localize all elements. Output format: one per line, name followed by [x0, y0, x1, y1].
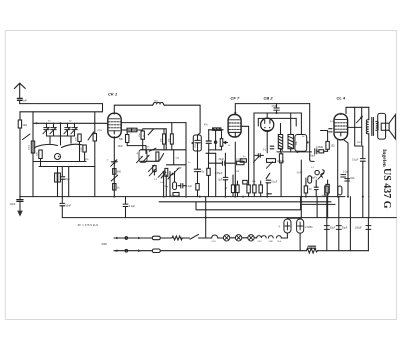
wire vert: [349, 197, 351, 251]
svg-text:1nF: 1nF: [160, 182, 164, 184]
svg-text:5000: 5000: [322, 195, 328, 197]
capacitor: [60, 177, 65, 197]
osc coil vertical: [141, 130, 144, 150]
svg-text:5n: 5n: [202, 170, 205, 173]
IF1 transformer: [206, 128, 227, 153]
wire plate feed: [127, 146, 146, 154]
svg-text:60W: 60W: [102, 242, 108, 246]
small box: [243, 180, 248, 184]
svg-text:0.1µF: 0.1µF: [129, 205, 136, 208]
coil: [156, 152, 159, 161]
wire CF7 plate top: [235, 104, 309, 113]
tube top caps: [113, 112, 342, 115]
svg-text:0.1: 0.1: [154, 179, 158, 181]
svg-text:1kΩ: 1kΩ: [23, 124, 28, 127]
osc coil A: [163, 129, 166, 150]
capacitor riser x125.5: [123, 197, 128, 218]
trimmer arrows: [136, 153, 149, 163]
svg-text:CK1: CK1: [212, 241, 217, 243]
svg-text:350: 350: [357, 142, 361, 144]
capacitor: [178, 184, 186, 189]
wire CL4 plate to transformer: [346, 107, 369, 113]
detector wire y163.2 with series cap: [209, 161, 235, 165]
resistor c: [247, 181, 250, 197]
wire: [355, 145, 363, 147]
wire antenna bus: [20, 104, 103, 112]
svg-text:50µµ: 50µµ: [170, 195, 176, 197]
misc labels: [85, 121, 361, 197]
wire drops to ground bus: [33, 142, 95, 197]
svg-text:8nF: 8nF: [351, 177, 356, 180]
svg-text:CL 4: CL 4: [337, 96, 346, 101]
capacitor antenna series: [17, 98, 22, 103]
svg-text:25: 25: [147, 147, 150, 149]
coil core circle: [55, 154, 61, 160]
svg-text:5n: 5n: [243, 156, 246, 158]
svg-text:10nF: 10nF: [10, 202, 16, 206]
wire grid bus y123.3: [33, 122, 108, 124]
svg-text:0.1µF: 0.1µF: [343, 172, 350, 174]
ground with capacitor: [17, 197, 23, 217]
detector area: wire y153.3: [206, 152, 216, 154]
wire tuner bottom bus 1: [33, 161, 86, 163]
junction dots on buses: [113, 196, 363, 219]
svg-text:1nF: 1nF: [178, 168, 182, 170]
svg-text:20µF: 20µF: [219, 158, 225, 161]
switch: [160, 154, 164, 161]
capacitor 5nF: [194, 169, 200, 183]
tube CK1: [108, 113, 121, 137]
tube CF7: [228, 115, 249, 182]
svg-text:50nF: 50nF: [66, 205, 72, 208]
svg-text:CK 1: CK 1: [108, 92, 118, 97]
svg-text:900: 900: [76, 137, 78, 141]
lamp 1: [223, 235, 229, 241]
volume pot: [266, 159, 275, 169]
capacitor 0.1uF: [360, 146, 365, 197]
coil L3: [78, 134, 81, 142]
wire osc bus y161.3: [141, 160, 160, 162]
AF cluster wires: [164, 172, 175, 197]
lamp 2: [235, 235, 241, 241]
wire: [160, 237, 172, 239]
coil L4: [83, 145, 86, 152]
wire AF coupling: [310, 159, 315, 161]
fuse row2: [152, 249, 160, 253]
node: [307, 141, 309, 143]
fuse row1: [152, 236, 160, 240]
trimmer osc row2 a: [149, 169, 155, 176]
svg-text:1n: 1n: [188, 162, 191, 164]
trimmer C3: [64, 123, 70, 136]
svg-text:50k: 50k: [119, 138, 124, 141]
svg-text:30k: 30k: [296, 141, 298, 145]
filter cap 50uF b: [336, 197, 341, 251]
svg-text:U 1854: U 1854: [305, 226, 313, 229]
wire CK1 screen row y122.6: [121, 122, 186, 124]
wire bus y201.8: [159, 201, 331, 203]
jack circle: [315, 170, 319, 174]
wire tuner top bus: [20, 111, 103, 113]
capacitor: [267, 193, 272, 195]
svg-text:1513: 1513: [97, 130, 103, 132]
resistor: [304, 178, 307, 197]
heater CK1 bump: [212, 235, 218, 238]
electrolytic pill: [308, 176, 312, 183]
filter cap 50uF a: [324, 197, 329, 251]
svg-text:CB 2: CB 2: [264, 96, 274, 101]
dropper resistor power: [306, 246, 317, 253]
rounded shield box: [295, 135, 307, 152]
resistor 0.1M horizontal: [237, 161, 244, 164]
switch osc: [148, 129, 153, 135]
capacitor 50nF: [60, 203, 65, 217]
wire: [199, 237, 212, 239]
coil L5: [93, 112, 96, 166]
wire tuner bottom bus 2: [39, 166, 95, 168]
coil L2: [39, 150, 42, 159]
svg-text:CF 7: CF 7: [231, 96, 240, 101]
svg-text:CB2: CB2: [269, 241, 274, 243]
switch ticks: [161, 172, 172, 179]
wire tone branch: [348, 107, 362, 146]
coil: [165, 168, 168, 176]
AF choke curl: [321, 170, 324, 177]
tube CB2: [261, 118, 274, 131]
trimmer on node: [356, 107, 362, 122]
gang bracket: [139, 150, 147, 163]
svg-text:2k: 2k: [228, 145, 231, 147]
mains row 1: [114, 237, 152, 240]
wire: [197, 190, 199, 197]
svg-text:150: 150: [331, 145, 336, 148]
resistor d: [253, 185, 256, 197]
svg-text:1k: 1k: [117, 187, 120, 190]
capacitor: [314, 180, 318, 197]
wire pills top: [287, 218, 300, 219]
svg-text:4µF+: 4µF+: [312, 177, 318, 180]
svg-text:CL4: CL4: [277, 241, 282, 243]
trimmer: [148, 165, 154, 172]
output transformer: [366, 107, 378, 196]
wire: [242, 237, 248, 239]
svg-text:6k: 6k: [302, 136, 305, 138]
svg-text:0.1: 0.1: [263, 150, 267, 152]
svg-text:CF7: CF7: [258, 241, 263, 243]
capacitor osc padder in box: [191, 105, 201, 151]
resistor det: [240, 159, 246, 162]
resistor CL4 grid: [326, 131, 329, 152]
wire: [181, 237, 190, 239]
svg-text:50p: 50p: [176, 158, 180, 160]
svg-text:50µF: 50µF: [342, 227, 348, 230]
wire left riser to bus: [61, 197, 63, 203]
heater CF7 bumps: [257, 236, 267, 238]
svg-text:0.1µF: 0.1µF: [352, 159, 359, 162]
wire CL4 screen: [344, 140, 348, 197]
capacitor det2: [266, 180, 271, 196]
wire CB2 top: [266, 113, 268, 118]
svg-text:4·: 4·: [137, 153, 139, 156]
svg-text:16nF: 16nF: [118, 146, 124, 148]
svg-text:50: 50: [48, 121, 51, 123]
svg-text:60: 60: [69, 121, 72, 123]
wire AF riser to heater chain: [205, 197, 207, 238]
resistor IF1 leg: [207, 168, 210, 175]
coil T50: [153, 102, 165, 105]
resistor 50k: [126, 132, 129, 146]
svg-text:50µF: 50µF: [330, 227, 336, 230]
wire IF1 legs: [209, 153, 216, 196]
resistor: [326, 180, 329, 218]
trimmer osc row2 b: [158, 171, 164, 178]
svg-text:40: 40: [309, 189, 312, 191]
wire UY bottom: [299, 233, 301, 251]
switch det: [266, 173, 270, 178]
wire to osc cap: [164, 104, 200, 106]
wire tuner vertical x33: [32, 112, 34, 162]
electrolytic pill: [338, 186, 342, 195]
node dots: [36, 122, 62, 124]
rectifier UY: [297, 219, 304, 233]
capacitor cathode bypass: [341, 175, 355, 181]
wire osc bus y149.8: [141, 149, 187, 151]
lamp 3: [248, 235, 254, 241]
trimmer on cathode: [111, 160, 118, 167]
wire CB2 bottom: [266, 131, 268, 152]
inner shield: [258, 118, 296, 126]
heater CB2 bumps: [268, 236, 273, 238]
trimmer det: [253, 156, 259, 163]
resistor 0.3M: [319, 150, 324, 153]
coil L1: [31, 141, 34, 153]
svg-text:8µF: 8µF: [66, 178, 71, 181]
capacitor series: [315, 149, 317, 154]
wire CK1 cathode down: [113, 137, 115, 197]
wire tuner left: [19, 112, 21, 120]
resistor e: [259, 181, 262, 197]
svg-text:47pF: 47pF: [272, 105, 278, 108]
switch on cathode: [111, 175, 117, 181]
node: [296, 151, 298, 153]
svg-text:901: 901: [85, 159, 89, 161]
wire CL4 cathode: [337, 140, 339, 197]
svg-text:40: 40: [225, 187, 228, 190]
svg-text:0.1µF: 0.1µF: [271, 181, 278, 184]
electrolytic pill: [173, 182, 177, 190]
wire gang frame: [47, 123, 75, 145]
mains switch: [190, 234, 199, 239]
wire riser to CY1: [281, 233, 287, 238]
wire: [230, 237, 235, 239]
small box above bus: [173, 193, 179, 197]
wire CK1 plate row y130: [121, 129, 143, 131]
gang arc 2: [62, 144, 84, 147]
wire: [197, 151, 199, 169]
capacitor 5nF det: [255, 154, 264, 158]
CB2 box: [254, 113, 301, 185]
resistor: [196, 184, 199, 191]
trimmer: [172, 167, 181, 175]
trimmer C2: [50, 123, 56, 136]
resistor pair: [231, 175, 239, 197]
resistor: [113, 184, 116, 191]
svg-text:1300: 1300: [81, 146, 83, 152]
svg-text:4·: 4·: [107, 160, 109, 162]
tube CL4: [334, 114, 348, 140]
svg-text:800: 800: [117, 171, 122, 174]
switch: [149, 148, 156, 151]
wire: [165, 129, 167, 150]
wire hum bus: [317, 197, 369, 218]
choke box 2: [132, 128, 138, 132]
svg-text:50k: 50k: [252, 181, 256, 183]
capacitor: [329, 129, 332, 132]
wire osc row y128.8: [143, 128, 167, 130]
osc coil B: [170, 123, 173, 150]
wire CF7 plate vertical: [309, 104, 311, 160]
resistor on cathode: [113, 169, 116, 175]
wire: [300, 160, 302, 218]
rectifier CY1: [284, 219, 291, 233]
capacitor block 8uF: [55, 173, 61, 197]
svg-text:3011: 3011: [29, 145, 31, 150]
resistor: [325, 186, 328, 195]
wire: [317, 150, 328, 152]
wire long bus y217.6: [62, 217, 396, 219]
svg-text:4·: 4·: [279, 226, 281, 229]
resistor 50k: [153, 166, 156, 175]
resistor R-ant: [18, 120, 21, 128]
wire CK1 plate top: [114, 105, 152, 113]
wire bus y209.8: [196, 197, 335, 210]
trimmer: [318, 173, 324, 180]
wire row2 long: [160, 250, 368, 252]
svg-text:~20µF: ~20µF: [309, 155, 316, 158]
gang arc 1: [35, 144, 58, 147]
IF2 transformer: [278, 113, 293, 152]
wire CF7 cathode: [234, 142, 236, 196]
band switch right: [88, 132, 94, 140]
svg-text:Ingelen: Ingelen: [381, 149, 387, 168]
svg-text:0.1µF: 0.1µF: [186, 185, 193, 188]
heater CL4 bumps: [277, 236, 282, 238]
speaker: [378, 113, 396, 139]
svg-text:640: 640: [37, 152, 39, 156]
resistor AVC: [279, 152, 282, 197]
svg-text:ZF = 476.5 kHz: ZF = 476.5 kHz: [78, 223, 99, 227]
svg-text:US 437 G: US 437 G: [381, 168, 392, 209]
wire: [167, 150, 187, 165]
trimmer C4: [71, 123, 77, 136]
choke box 1: [127, 128, 132, 132]
svg-text:0.1: 0.1: [311, 167, 315, 169]
mains row 2: [114, 249, 152, 252]
wire: [254, 237, 256, 239]
svg-text:47n: 47n: [204, 125, 209, 127]
wire ground bus y196.6: [20, 196, 345, 198]
svg-text:1nF: 1nF: [23, 99, 28, 103]
wire: [19, 128, 21, 197]
capacitor 47pF series: [274, 104, 280, 114]
svg-text:2µF: 2µF: [218, 179, 223, 181]
wire: [321, 130, 328, 132]
dropper zigzag: [172, 236, 182, 240]
capacitor 2uF: [223, 153, 228, 196]
svg-text:50p: 50p: [165, 186, 169, 188]
band switch left: [23, 134, 31, 140]
trimmer C1: [43, 123, 49, 136]
antenna: [14, 83, 25, 97]
wire: [218, 237, 224, 239]
wire: [277, 151, 312, 153]
filter cap 100uF: [366, 218, 371, 251]
svg-text:0.3MΩ: 0.3MΩ: [316, 146, 323, 149]
svg-text:2M: 2M: [236, 171, 239, 173]
capacitor: [270, 146, 274, 149]
wire osc right vertical: [185, 123, 187, 197]
svg-text:550: 550: [195, 143, 197, 147]
svg-text:100µF: 100µF: [355, 227, 362, 230]
